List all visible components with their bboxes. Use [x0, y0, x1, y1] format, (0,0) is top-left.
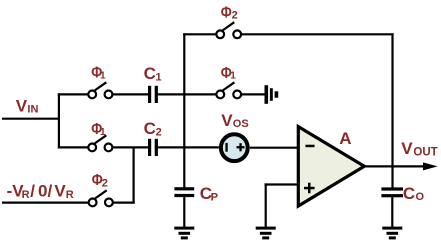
svg-text:P: P [211, 192, 218, 204]
svg-text:OUT: OUT [413, 147, 437, 159]
label C2 [144, 119, 162, 139]
switch S1 phi1 (C1 input) [88, 82, 112, 98]
arrow output [423, 162, 438, 170]
capacitor CP [174, 187, 194, 197]
wire C2 to VOS [158, 146, 219, 148]
op-amp A [298, 127, 364, 206]
svg-text:0: 0 [38, 181, 47, 200]
wire CP to ground [183, 197, 185, 227]
svg-text:V: V [401, 139, 413, 158]
wire feedback column [391, 33, 393, 187]
ground (CO) [382, 227, 402, 240]
svg-text:IN: IN [27, 103, 38, 115]
op-amp plus input mark [304, 183, 315, 194]
wire summing-node column [183, 33, 185, 187]
wire switch to branch [113, 202, 135, 204]
wire switch S2 to ground [241, 93, 264, 95]
label reference levels [7, 181, 74, 201]
label phi1 left top [91, 64, 106, 81]
svg-text:1: 1 [230, 71, 236, 82]
svg-text:2: 2 [102, 177, 108, 189]
label C1 [144, 64, 162, 84]
svg-text:C: C [403, 184, 415, 203]
source VOS circle [221, 134, 248, 161]
svg-text:V: V [16, 97, 28, 116]
label VOUT [401, 139, 437, 159]
capacitor C1 [150, 86, 157, 103]
svg-text:O: O [416, 191, 425, 203]
svg-text:1: 1 [100, 127, 106, 138]
wire C1 to switch S2 [158, 93, 217, 95]
switch S2 phi1 (to ground) [216, 82, 241, 98]
svg-text:C: C [144, 119, 156, 138]
svg-text:/: / [48, 181, 53, 200]
wire VIN lead [2, 118, 59, 120]
svg-text:2: 2 [156, 127, 162, 139]
ground (plus input) [256, 227, 276, 240]
label phi2 bottom [92, 172, 108, 189]
wire output [364, 165, 428, 167]
VOS polarity marks [225, 143, 244, 152]
label VOS [221, 111, 249, 130]
svg-text:OS: OS [233, 118, 249, 130]
label phi2 top [221, 5, 238, 22]
wire CO to ground [391, 197, 393, 227]
ground sideways (top right) [265, 85, 279, 104]
svg-text:1: 1 [156, 71, 162, 83]
svg-text:R: R [66, 189, 74, 201]
wire left branch vertical [58, 93, 60, 148]
wire switch to C2 [112, 146, 148, 148]
wire top row left [183, 33, 216, 35]
label VIN [16, 97, 39, 116]
wire plus input [265, 183, 298, 185]
wire C1-row stub [58, 93, 89, 95]
svg-text:V: V [221, 111, 233, 130]
label phi1 top right [221, 65, 237, 82]
switch S4 phi1 (C2 input) [88, 135, 112, 151]
svg-text:2: 2 [232, 9, 238, 21]
wire C2-row stub [58, 146, 89, 148]
wire reference lead [2, 202, 89, 204]
wire VOS to op-amp [250, 147, 298, 149]
svg-text:R: R [22, 189, 30, 201]
svg-text:V: V [54, 181, 66, 200]
svg-text:/: / [30, 181, 35, 200]
svg-text:A: A [339, 129, 351, 148]
switch S3 phi2 (feedback) [216, 22, 241, 38]
switch S5 phi2 (reference) [89, 190, 113, 206]
capacitor C2 [150, 139, 157, 156]
wire reference branch vertical [133, 147, 135, 203]
label CO [403, 184, 425, 203]
capacitor CO [381, 187, 403, 197]
wire feedback top [241, 33, 394, 35]
wire switch to C1 [112, 93, 148, 95]
label phi1 left mid [91, 121, 106, 138]
svg-text:1: 1 [100, 71, 106, 82]
svg-text:Φ: Φ [221, 5, 232, 22]
svg-text:C: C [144, 64, 156, 83]
wire plus input to ground [265, 183, 267, 227]
ground (CP) [174, 227, 194, 240]
label CP [200, 184, 218, 204]
op-amp minus input mark [306, 145, 315, 148]
